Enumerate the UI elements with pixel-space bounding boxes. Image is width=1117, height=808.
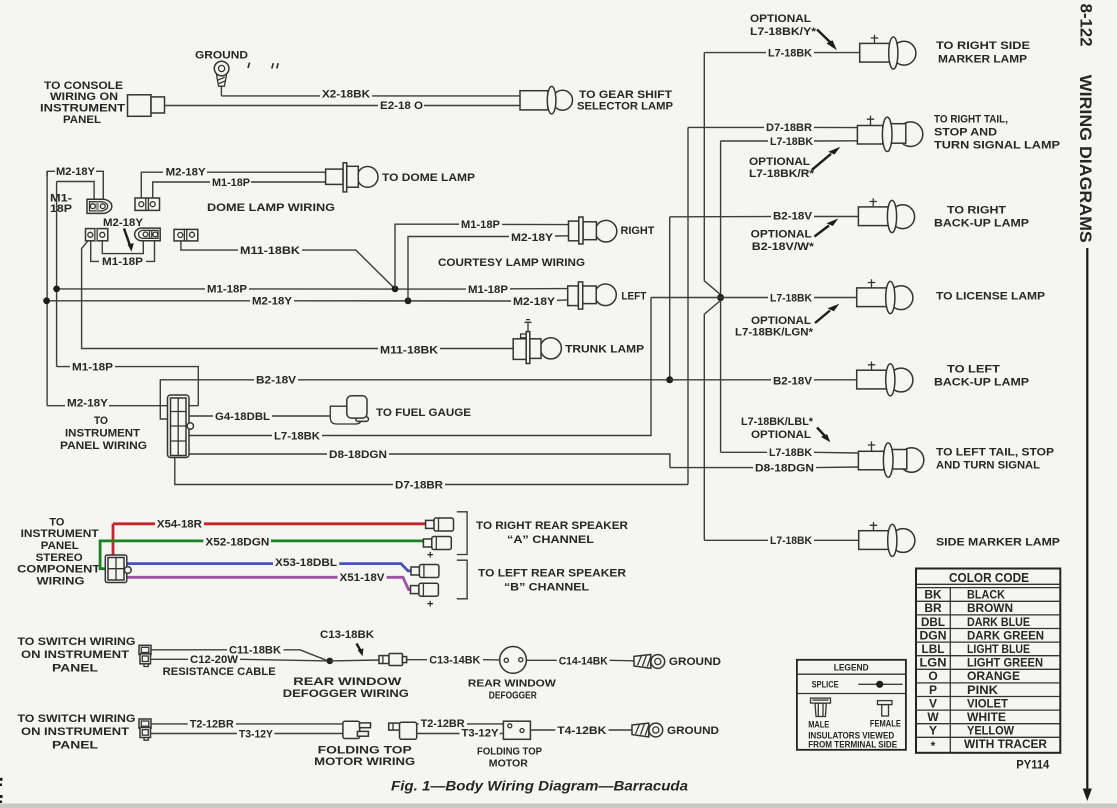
connector pair folding top [389, 722, 417, 739]
svg-text:RIGHT: RIGHT [621, 225, 655, 237]
arrow optional LBL [817, 428, 830, 443]
svg-text:VIOLET: VIOLET [967, 696, 1009, 710]
svg-text:TURN SIGNAL LAMP: TURN SIGNAL LAMP [934, 140, 1060, 152]
junction L7 license [717, 294, 724, 301]
wire splice to connector pair [330, 659, 379, 662]
svg-text:G4-18DBL: G4-18DBL [215, 411, 270, 423]
label TO RIGHT SIDE MARKER LAMP [936, 40, 1030, 65]
label REAR WINDOW DEFOGGER [468, 677, 556, 701]
wire G4-18DBL [189, 415, 331, 417]
lamp right tail stop turn [857, 116, 922, 152]
svg-text:ORANGE: ORANGE [967, 669, 1020, 683]
svg-text:BR: BR [924, 601, 942, 615]
svg-text:T2-12BR: T2-12BR [190, 719, 234, 731]
scan tick marks [248, 63, 278, 69]
svg-text:X2-18BK: X2-18BK [322, 89, 370, 101]
label TO LEFT TAIL STOP AND TURN SIGNAL [936, 447, 1054, 472]
svg-text:M2-18Y: M2-18Y [56, 166, 96, 178]
ground terminal defogger [634, 655, 665, 669]
svg-text:TO SWITCH WIRING: TO SWITCH WIRING [18, 713, 136, 725]
svg-text:M2-18Y: M2-18Y [166, 167, 207, 179]
label TO CONSOLE WIRING ON INSTRUMENT PANEL [40, 80, 125, 126]
arrow optional LGN [815, 304, 839, 323]
wire T2-12BR left [151, 723, 343, 725]
wire L7-18BK license [651, 297, 857, 299]
svg-text:+: + [427, 550, 433, 562]
svg-text:OPTIONAL: OPTIONAL [749, 156, 810, 168]
svg-text:ON INSTRUMENT: ON INSTRUMENT [21, 726, 129, 738]
svg-text:DBL: DBL [921, 615, 945, 629]
arrow optional Y [817, 30, 837, 51]
wire D7-18BR right tail [688, 126, 858, 128]
label REAR WINDOW DEFOGGER WIRING [283, 676, 409, 700]
lamp trunk [513, 320, 561, 364]
wire X51-18V violet [128, 577, 412, 589]
svg-text:COURTESY LAMP WIRING: COURTESY LAMP WIRING [438, 257, 585, 269]
svg-text:LEGEND: LEGEND [834, 663, 869, 673]
terminal speaker A green [423, 537, 451, 550]
label OPTIONAL B2-18V/W* [751, 229, 815, 254]
wire M2-18Y branch right courtesy [408, 236, 569, 301]
svg-text:GROUND: GROUND [667, 725, 719, 737]
wire D8-18DGN left tail [670, 466, 859, 469]
folding top motor box [503, 721, 530, 739]
wire ground stem to X2-18BK [220, 86, 222, 96]
label OPTIONAL L7-18BK/R* [749, 156, 815, 180]
svg-text:SIDE MARKER LAMP: SIDE MARKER LAMP [936, 537, 1060, 549]
svg-text:BLACK: BLACK [967, 588, 1005, 602]
svg-text:TO LEFT: TO LEFT [947, 364, 1000, 376]
svg-text:+: + [427, 599, 433, 611]
wire M2-18Y jumper C3 right pin to C4 left pin [102, 241, 143, 254]
svg-text:MARKER LAMP: MARKER LAMP [938, 53, 1027, 65]
svg-text:B2-18V: B2-18V [773, 376, 813, 388]
svg-text:LBL: LBL [922, 642, 945, 656]
bracket A channel [457, 512, 467, 555]
wire C2 right pin up to M1-18P dome [153, 182, 326, 198]
svg-text:C14-14BK: C14-14BK [559, 655, 608, 667]
svg-text:FEMALE: FEMALE [870, 718, 901, 728]
svg-text:GROUND: GROUND [669, 656, 721, 668]
svg-text:WHITE: WHITE [967, 710, 1006, 724]
svg-text:E2-18 O: E2-18 O [380, 100, 423, 112]
svg-text:DARK BLUE: DARK BLUE [967, 615, 1030, 629]
svg-text:TO GEAR SHIFT: TO GEAR SHIFT [579, 89, 672, 101]
label TO LEFT REAR SPEAKER B CHANNEL [478, 568, 626, 594]
svg-text:ON INSTRUMENT: ON INSTRUMENT [21, 649, 129, 661]
svg-text:O: O [928, 669, 937, 683]
vertical bus L7-18BK main [704, 53, 720, 541]
svg-text:PANEL: PANEL [63, 114, 101, 126]
svg-text:L7-18BK: L7-18BK [769, 447, 812, 459]
svg-text:TO LICENSE LAMP: TO LICENSE LAMP [936, 291, 1045, 303]
junction M2 left [43, 297, 50, 304]
lamp gear shift selector [520, 86, 573, 114]
vertical bus B2-18V branch [669, 217, 671, 380]
svg-text:STEREO: STEREO [36, 552, 83, 564]
svg-text:OPTIONAL: OPTIONAL [751, 315, 811, 327]
svg-text:LIGHT BLUE: LIGHT BLUE [967, 642, 1030, 656]
svg-text:PANEL: PANEL [52, 662, 98, 674]
arrow optional W [815, 219, 839, 237]
svg-text:BACK-UP LAMP: BACK-UP LAMP [934, 218, 1029, 230]
long vertical M2-18Y left [46, 171, 48, 405]
connector instrument panel multi-pin [168, 395, 194, 458]
wire C14-14BK [526, 659, 634, 662]
connector C5 two-pin [174, 229, 198, 241]
svg-text:L7-18BK/LGN*: L7-18BK/LGN* [735, 327, 814, 339]
lamp right backup [858, 198, 914, 232]
svg-text:STOP AND: STOP AND [934, 127, 997, 139]
svg-text:D8-18DGN: D8-18DGN [755, 462, 814, 474]
label FOLDING TOP MOTOR WIRING [314, 744, 415, 768]
vertical bus L7-18BK tail [720, 141, 722, 453]
junction B2 [666, 376, 673, 383]
svg-text:Y: Y [929, 724, 937, 738]
svg-text:SPLICE: SPLICE [812, 680, 839, 690]
svg-text:TO RIGHT REAR SPEAKER: TO RIGHT REAR SPEAKER [476, 520, 628, 532]
svg-text:8-122: 8-122 [1077, 4, 1096, 47]
svg-text:DGN: DGN [920, 628, 947, 642]
connector C1 bullet male [87, 199, 112, 213]
wire M1-18P bracket C3 left pin to C4 right pin [91, 241, 155, 262]
connector C3 two-pin [86, 229, 108, 241]
label TO RIGHT BACK-UP LAMP [934, 205, 1029, 230]
label TO RIGHT REAR SPEAKER A CHANNEL [476, 520, 628, 546]
wire L7-18BK from connector [189, 298, 651, 436]
svg-text:PINK: PINK [967, 683, 998, 697]
wire M1-18P branch right courtesy [395, 224, 569, 289]
svg-text:LEFT: LEFT [621, 291, 646, 303]
label TO INSTRUMENT PANEL WIRING [60, 415, 147, 452]
connector folding top motor wiring [343, 721, 371, 738]
wire C11-18BK [151, 650, 328, 661]
svg-text:L7-18BK/R*: L7-18BK/R* [749, 168, 815, 180]
junction M2 right [405, 297, 412, 304]
wire C2 left pin up to M2-18Y dome [141, 172, 325, 198]
svg-text:D7-18BR: D7-18BR [395, 479, 443, 491]
lamp courtesy left [568, 282, 617, 309]
svg-text:L7-18BK/LBL*: L7-18BK/LBL* [741, 416, 814, 428]
svg-text:FOLDING TOP: FOLDING TOP [318, 744, 412, 756]
wire M2-18Y to panel connector [47, 405, 198, 407]
svg-text:TO FUEL GAUGE: TO FUEL GAUGE [376, 407, 471, 419]
legend box frame [797, 660, 906, 750]
wire C13-14BK [407, 659, 500, 661]
svg-text:FROM TERMINAL SIDE: FROM TERMINAL SIDE [808, 740, 897, 750]
lamp courtesy right [569, 217, 617, 244]
wire L7-18BK right side marker [704, 52, 860, 54]
svg-text:L7-18BK: L7-18BK [768, 48, 812, 60]
wire B2-18V left backup [670, 379, 857, 381]
connector C4 bullet female left [135, 228, 161, 241]
svg-text:COMPONENT: COMPONENT [17, 564, 100, 576]
svg-text:M2-18Y: M2-18Y [67, 398, 109, 410]
wire B2-18V stub from connector [160, 380, 669, 419]
svg-text:DEFOGGER: DEFOGGER [489, 689, 537, 701]
label OPTIONAL L7-18BK/Y* [750, 13, 817, 38]
wire T3-12Y left [151, 733, 344, 735]
svg-text:M1-18P: M1-18P [102, 256, 143, 268]
svg-text:TO: TO [49, 516, 64, 528]
svg-text:DARK GREEN: DARK GREEN [967, 628, 1044, 642]
svg-text:COLOR CODE: COLOR CODE [949, 570, 1029, 585]
splice junction defogger [327, 658, 334, 665]
svg-text:M11-18BK: M11-18BK [380, 344, 438, 356]
svg-text:TO SWITCH WIRING: TO SWITCH WIRING [18, 636, 136, 648]
connector console plug [128, 95, 165, 117]
svg-text:YELLOW: YELLOW [967, 724, 1015, 738]
connector switch plug row2 [139, 719, 151, 740]
junction M1 right [392, 286, 399, 293]
label TO RIGHT TAIL STOP AND TURN SIGNAL LAMP [934, 114, 1060, 152]
bracket B channel [457, 560, 467, 599]
svg-text:OPTIONAL: OPTIONAL [751, 429, 811, 441]
wire D7-18BR from connector bottom [175, 458, 688, 485]
long vertical M1-18P left [56, 182, 58, 367]
svg-text:TO DOME LAMP: TO DOME LAMP [382, 172, 475, 184]
svg-text:MOTOR: MOTOR [489, 757, 528, 769]
svg-text:RESISTANCE CABLE: RESISTANCE CABLE [163, 666, 276, 678]
svg-text:P: P [929, 683, 937, 697]
svg-text:D7-18BR: D7-18BR [766, 122, 812, 134]
arrow optional R [812, 147, 840, 170]
label TO GEAR SHIFT SELECTOR LAMP [577, 89, 673, 113]
connector stereo component [105, 555, 131, 583]
lamp side marker bottom [859, 522, 915, 556]
svg-text:LGN: LGN [920, 656, 947, 670]
svg-text:B2-18V: B2-18V [773, 210, 813, 222]
svg-text:REAR WINDOW: REAR WINDOW [468, 677, 556, 689]
svg-text:M1-18P: M1-18P [468, 284, 508, 296]
wire M1-18P to panel connector [57, 367, 199, 406]
splice symbol line and dot [858, 681, 902, 688]
ground ring terminal [214, 61, 229, 86]
svg-text:X53-18DBL: X53-18DBL [275, 557, 337, 569]
svg-text:OPTIONAL: OPTIONAL [750, 13, 811, 25]
label TO SWITCH WIRING ON INSTRUMENT PANEL row2 [18, 713, 136, 751]
wire M1-18P long [57, 288, 568, 291]
svg-text:PANEL: PANEL [52, 739, 98, 751]
svg-text:GROUND: GROUND [195, 50, 248, 62]
wire C12-20W [151, 659, 330, 661]
svg-text:WIRING DIAGRAMS: WIRING DIAGRAMS [1076, 75, 1094, 243]
wire L7-18BK right tail [721, 140, 858, 142]
svg-text:X54-18R: X54-18R [157, 519, 202, 531]
svg-text:L7-18BK: L7-18BK [274, 430, 320, 442]
svg-text:INSTRUMENT: INSTRUMENT [65, 427, 140, 439]
svg-text:DEFOGGER WIRING: DEFOGGER WIRING [283, 688, 409, 700]
wire X53-18DBL blue [128, 564, 412, 571]
wire T3-12Y right [417, 733, 504, 735]
svg-text:OPTIONAL: OPTIONAL [751, 229, 812, 241]
svg-text:WIRING: WIRING [37, 575, 85, 587]
arrow M2-18Y to jumper [124, 229, 134, 252]
male insulator symbol [811, 698, 831, 716]
lamp left tail stop turn [858, 441, 923, 477]
table rows color codes [920, 588, 947, 754]
svg-text:MOTOR WIRING: MOTOR WIRING [314, 756, 415, 768]
svg-text:BK: BK [924, 588, 942, 602]
svg-text:PANEL: PANEL [41, 540, 79, 552]
svg-text:SELECTOR LAMP: SELECTOR LAMP [577, 100, 673, 112]
svg-text:TO LEFT REAR SPEAKER: TO LEFT REAR SPEAKER [478, 568, 626, 580]
lamp right side marker [860, 35, 916, 69]
lamp left backup [857, 362, 913, 396]
svg-text:M1-18P: M1-18P [212, 177, 250, 189]
junction M1 left [53, 286, 60, 293]
arrow C13-18BK [357, 644, 364, 657]
wire D8-18DGN from connector [189, 454, 670, 468]
svg-text:X52-18DGN: X52-18DGN [205, 537, 269, 549]
svg-text:B2-18V: B2-18V [256, 375, 297, 387]
svg-text:M1-18P: M1-18P [461, 219, 500, 231]
svg-text:C12-20W: C12-20W [190, 654, 239, 666]
svg-text:REAR WINDOW: REAR WINDOW [293, 676, 402, 688]
svg-text:PY114: PY114 [1016, 759, 1050, 771]
svg-text:M2-18Y: M2-18Y [103, 217, 144, 229]
svg-text:M2-18Y: M2-18Y [252, 296, 293, 308]
sidebar rule with arrow [1083, 248, 1092, 801]
lamp dome [326, 163, 378, 192]
svg-text:MALE: MALE [808, 719, 829, 729]
svg-text:M2-18Y: M2-18Y [513, 296, 556, 308]
svg-text:“B” CHANNEL: “B” CHANNEL [504, 582, 589, 594]
fuel gauge symbol [330, 396, 368, 424]
terminal speaker B blue [411, 565, 439, 578]
svg-text:AND TURN SIGNAL: AND TURN SIGNAL [936, 460, 1040, 472]
svg-text:*: * [931, 739, 936, 753]
label FOLDING TOP MOTOR [477, 746, 542, 770]
connector switch plug row1 [139, 645, 151, 666]
label OPTIONAL L7-18BK/LGN* [735, 315, 814, 339]
terminal speaker A red [426, 518, 454, 531]
svg-text:TO: TO [94, 415, 108, 427]
svg-text:M1-18P: M1-18P [72, 362, 113, 374]
svg-text:INSTRUMENT: INSTRUMENT [21, 528, 99, 540]
wire M11-18BK from C5 to junction [181, 241, 395, 289]
svg-text:TRUNK LAMP: TRUNK LAMP [565, 343, 644, 355]
wire X54-18R red [113, 524, 427, 556]
wire T4-12BK [530, 729, 632, 731]
svg-text:L7-18BK: L7-18BK [770, 136, 813, 148]
svg-text:TO RIGHT: TO RIGHT [947, 205, 1006, 217]
svg-text:18P: 18P [50, 203, 72, 215]
svg-text:X51-18V: X51-18V [340, 572, 386, 584]
female insulator symbol [878, 701, 893, 716]
svg-text:B2-18V/W*: B2-18V/W* [752, 241, 815, 253]
label M1-18P two line [50, 193, 72, 215]
svg-text:C13-18BK: C13-18BK [320, 629, 374, 641]
svg-text:M11-18BK: M11-18BK [240, 245, 300, 257]
svg-text:V: V [929, 696, 937, 710]
wire L7-18BK side marker bottom [704, 539, 859, 541]
wire M2-18Y long [47, 300, 568, 301]
svg-text:TO LEFT TAIL, STOP: TO LEFT TAIL, STOP [936, 447, 1054, 459]
svg-text:TO CONSOLE: TO CONSOLE [44, 80, 123, 92]
svg-text:LIGHT GREEN: LIGHT GREEN [967, 656, 1043, 670]
svg-text:L7-18BK: L7-18BK [770, 535, 812, 547]
svg-text:T4-12BK: T4-12BK [557, 725, 606, 737]
wire M11-18BK trunk from C3 left pin [82, 241, 514, 349]
label TO LEFT BACK-UP LAMP [934, 364, 1029, 389]
svg-text:T3-12Y: T3-12Y [462, 727, 500, 739]
vertical bus D7-18BR [687, 127, 689, 484]
svg-text:TO RIGHT SIDE: TO RIGHT SIDE [936, 40, 1030, 52]
svg-text:PANEL WIRING: PANEL WIRING [60, 440, 147, 452]
lamp license [857, 279, 913, 313]
svg-text:T2-12BR: T2-12BR [421, 718, 465, 730]
svg-text:TO RIGHT TAIL,: TO RIGHT TAIL, [934, 114, 1008, 126]
svg-text:W: W [927, 710, 939, 724]
wire L7-18BK left tail [721, 451, 859, 454]
label L7-18BK/LBL* OPTIONAL [741, 416, 814, 441]
svg-text:C13-14BK: C13-14BK [429, 655, 480, 667]
svg-text:D8-18DGN: D8-18DGN [329, 449, 387, 461]
wire M1-18P bracket to connector 1 left pin [57, 182, 95, 200]
svg-text:M2-18Y: M2-18Y [511, 232, 554, 244]
svg-text:INSTRUMENT: INSTRUMENT [40, 103, 125, 115]
svg-text:L7-18BK/Y*: L7-18BK/Y* [750, 26, 817, 38]
svg-text:T3-12Y: T3-12Y [239, 728, 274, 740]
connector C2 two-pin [135, 198, 160, 210]
svg-text:WITH TRACER: WITH TRACER [964, 737, 1047, 751]
wire X52-18DGN green [100, 541, 424, 569]
wire E2-18 [165, 105, 521, 107]
svg-text:L7-18BK: L7-18BK [770, 292, 812, 304]
terminal speaker B violet [411, 583, 439, 596]
svg-text:M1-18P: M1-18P [207, 284, 247, 296]
rear window defogger circle [500, 647, 527, 674]
ground terminal folding top [632, 723, 663, 737]
wire X2-18BK [221, 95, 520, 97]
label TO SWITCH WIRING ON INSTRUMENT PANEL row1 [18, 636, 136, 674]
wire M2-18Y bracket to connector [47, 171, 103, 199]
color code table frame [916, 569, 1060, 753]
svg-text:DOME LAMP WIRING: DOME LAMP WIRING [207, 202, 335, 214]
wire B2-18V right backup [670, 216, 858, 218]
svg-text:“A” CHANNEL: “A” CHANNEL [507, 534, 594, 546]
wire T2-12BR right [417, 723, 504, 725]
svg-text:WIRING ON: WIRING ON [50, 91, 118, 103]
svg-text:BACK-UP LAMP: BACK-UP LAMP [934, 377, 1029, 389]
label TO INSTRUMENT PANEL STEREO COMPONENT WIRING [17, 516, 100, 587]
svg-text:Fig. 1—Body Wiring Diagram—Bar: Fig. 1—Body Wiring Diagram—Barracuda [391, 778, 688, 794]
svg-text:FOLDING TOP: FOLDING TOP [477, 746, 542, 758]
table rows color names [964, 588, 1047, 752]
connector pair defogger [379, 654, 407, 666]
svg-text:BROWN: BROWN [967, 601, 1013, 615]
